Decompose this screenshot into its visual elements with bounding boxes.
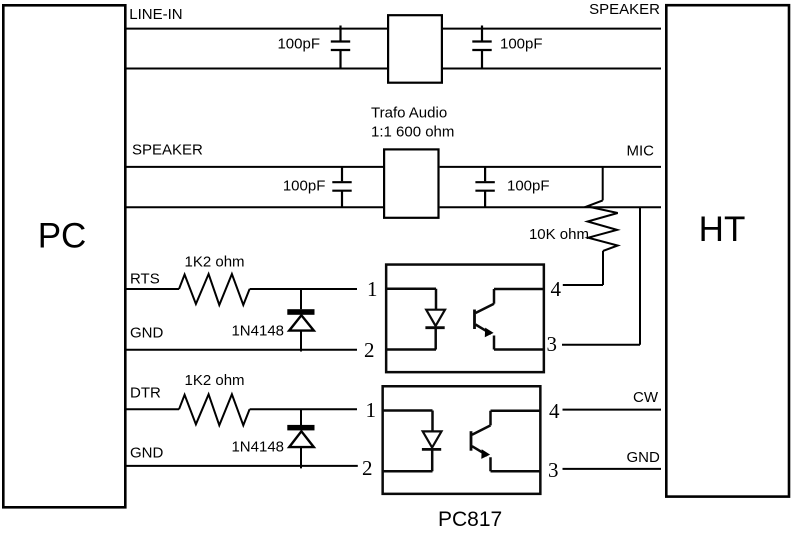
svg-text:1:1 600 ohm: 1:1 600 ohm xyxy=(371,123,454,140)
svg-text:10K ohm: 10K ohm xyxy=(529,226,589,243)
svg-text:MIC: MIC xyxy=(627,143,655,160)
svg-text:1: 1 xyxy=(367,277,378,301)
svg-text:Trafo Audio: Trafo Audio xyxy=(371,104,447,121)
svg-text:LINE-IN: LINE-IN xyxy=(129,6,182,23)
svg-text:1K2 ohm: 1K2 ohm xyxy=(185,253,245,270)
svg-text:GND: GND xyxy=(626,449,660,466)
svg-text:SPEAKER: SPEAKER xyxy=(132,142,203,159)
svg-text:CW: CW xyxy=(633,389,659,406)
svg-text:2: 2 xyxy=(364,338,375,362)
svg-text:100pF: 100pF xyxy=(500,36,543,53)
svg-text:SPEAKER: SPEAKER xyxy=(589,1,660,18)
svg-text:4: 4 xyxy=(549,399,560,423)
svg-text:PC: PC xyxy=(38,217,87,256)
svg-text:1K2 ohm: 1K2 ohm xyxy=(185,372,245,389)
svg-text:2: 2 xyxy=(362,456,373,480)
svg-text:1: 1 xyxy=(366,398,377,422)
svg-text:DTR: DTR xyxy=(130,385,161,402)
svg-text:RTS: RTS xyxy=(130,270,160,287)
svg-text:100pF: 100pF xyxy=(507,178,550,195)
svg-text:1N4148: 1N4148 xyxy=(231,322,284,339)
svg-text:1N4148: 1N4148 xyxy=(231,439,284,456)
svg-text:3: 3 xyxy=(547,332,558,356)
svg-text:4: 4 xyxy=(551,277,562,301)
svg-text:GND: GND xyxy=(130,325,164,342)
svg-text:HT: HT xyxy=(699,210,746,249)
svg-text:100pF: 100pF xyxy=(283,178,326,195)
svg-text:3: 3 xyxy=(548,458,559,482)
svg-text:GND: GND xyxy=(130,445,164,462)
svg-text:PC817: PC817 xyxy=(438,508,502,531)
svg-text:100pF: 100pF xyxy=(277,36,320,53)
